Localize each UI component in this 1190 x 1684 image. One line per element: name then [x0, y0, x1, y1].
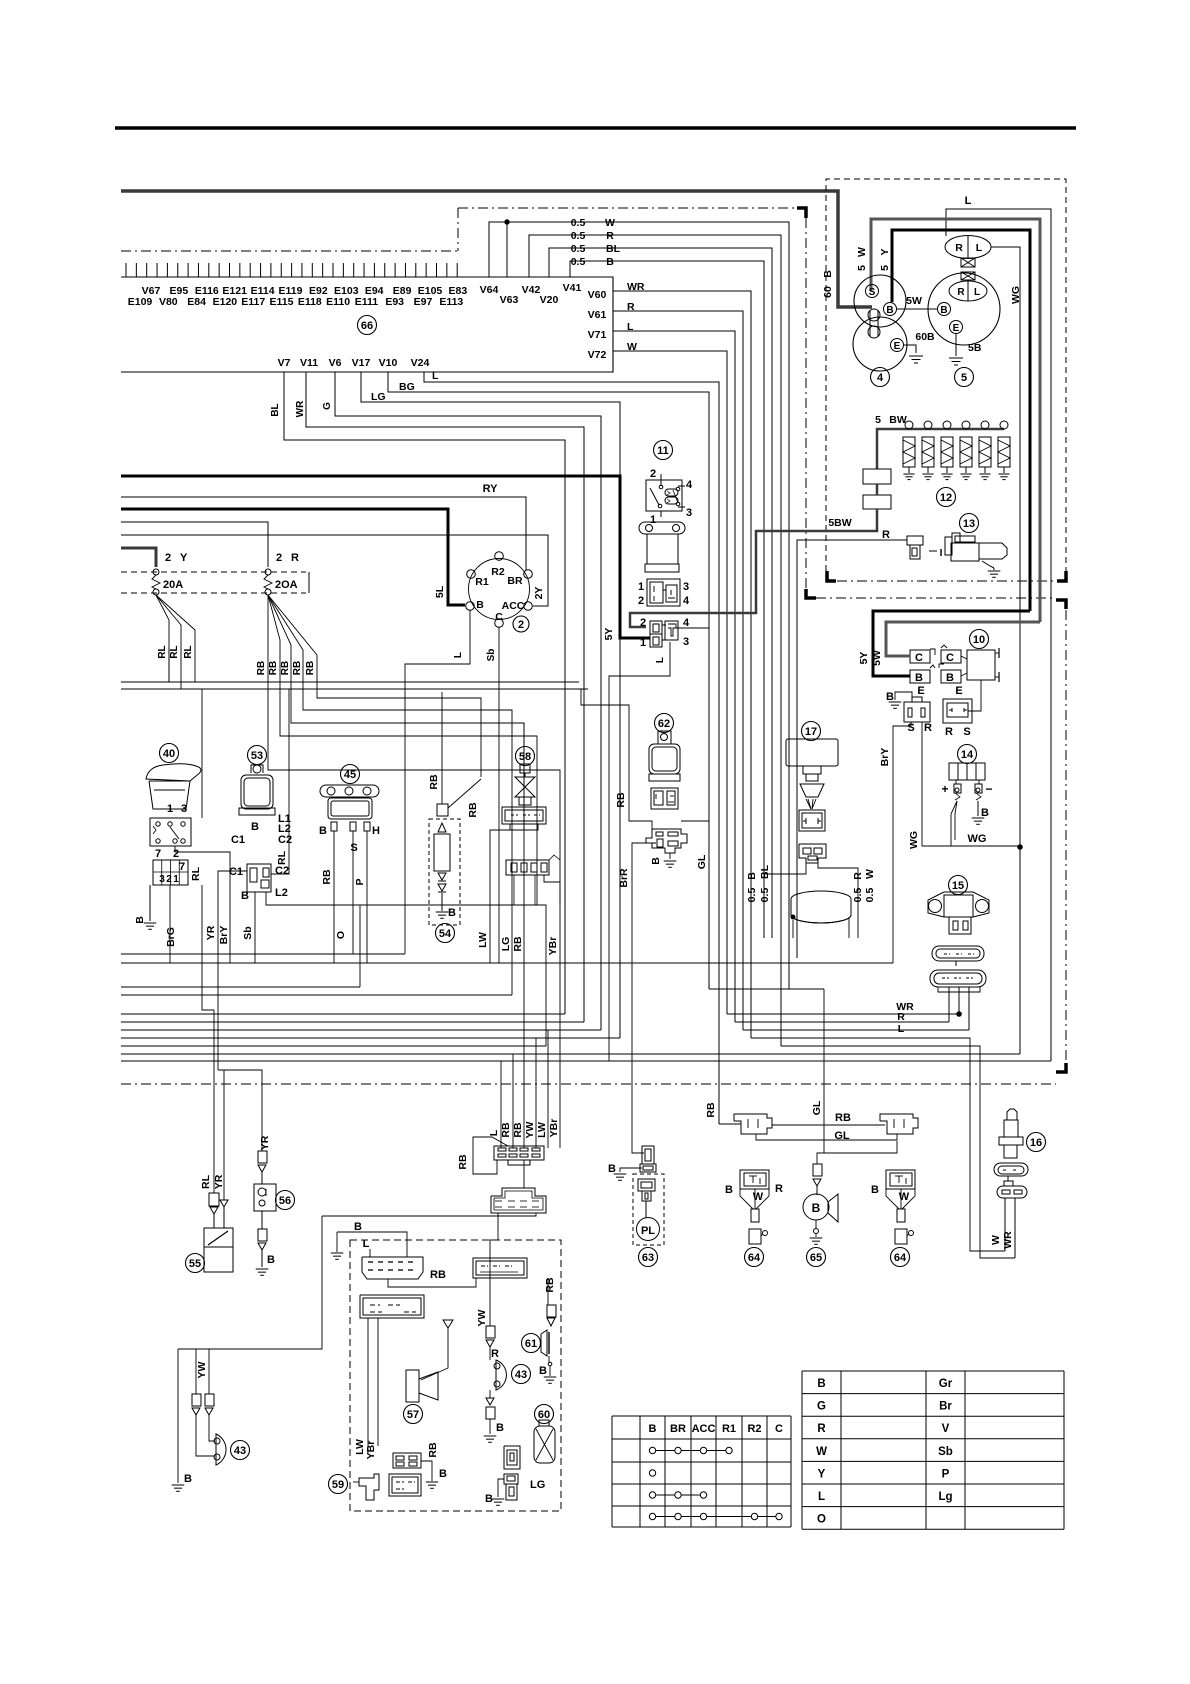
svg-text:RB: RB: [430, 1269, 446, 1281]
svg-text:B: B: [940, 305, 947, 316]
svg-text:YW: YW: [524, 1121, 536, 1138]
relay 11 pin2: [660, 474, 662, 486]
circle 43: [512, 1365, 531, 1384]
connector 11 lower pin2: [650, 621, 662, 634]
svg-text:V64: V64: [480, 284, 499, 296]
circle 10: [970, 630, 989, 649]
svg-text:B: B: [241, 890, 249, 902]
svg-text:3: 3: [181, 803, 187, 815]
pilot lamp 63 plug: [638, 1179, 655, 1191]
svg-text:L: L: [453, 652, 464, 658]
wire L from B terminal: [405, 610, 470, 954]
regulator 55 body: [204, 1247, 233, 1272]
wire WR to reg: [727, 1013, 959, 1015]
tail conn oval 2: [997, 1186, 1027, 1198]
wire B gnd stem: [336, 1232, 338, 1252]
alternator terminal E: [950, 321, 963, 334]
svg-text:E: E: [953, 323, 960, 334]
connector 53: [247, 864, 271, 892]
engine frame dash-dot top: [458, 207, 797, 209]
svg-text:5Y: 5Y: [858, 652, 870, 665]
wire BrY from S: [893, 722, 911, 963]
wires conn3 down: [367, 1318, 369, 1453]
cdi link C: [961, 656, 967, 659]
starter terminal E: [891, 339, 904, 352]
headlight 64R bulb: [886, 1170, 915, 1189]
ignition sw conn 60: [504, 1446, 520, 1469]
svg-text:ACC: ACC: [502, 600, 525, 612]
svg-text:B: B: [251, 821, 259, 833]
cdi 10 box: [967, 650, 995, 680]
tail socket oval: [994, 1163, 1028, 1176]
battery 14 body: [949, 763, 985, 780]
svg-text:45: 45: [344, 769, 356, 781]
wire GL from 62: [681, 820, 709, 822]
wire 17 basket left: [771, 878, 773, 938]
wire L2 down: [266, 892, 546, 1046]
svg-text:V61: V61: [588, 309, 607, 321]
svg-text:R: R: [924, 722, 932, 734]
connector 55a: [209, 1193, 219, 1206]
ground 59: [431, 1473, 433, 1481]
wire y1216: [322, 1213, 536, 1216]
ground 63: [614, 1173, 627, 1175]
svg-text:RB: RB: [705, 1102, 717, 1118]
svg-text:RB: RB: [427, 1442, 439, 1458]
svg-text:60: 60: [822, 286, 834, 298]
svg-text:R: R: [945, 726, 953, 738]
circle 63: [639, 1248, 658, 1267]
svg-text:V20: V20: [540, 294, 559, 306]
bottom group dashed box 59: [350, 1240, 561, 1511]
relay 53 tab: [253, 765, 261, 773]
svg-text:R: R: [897, 1011, 905, 1023]
starter E ground wire: [904, 345, 916, 353]
bus line 995: [121, 994, 512, 996]
connector 63 plug: [632, 1154, 642, 1156]
table row2 dots: [649, 1470, 655, 1476]
svg-text:L: L: [363, 1238, 370, 1250]
svg-text:GL: GL: [811, 1100, 823, 1115]
wires 17 right: [818, 863, 858, 938]
plug cap 17 cylinder: [791, 891, 851, 923]
wire WG to junction: [922, 845, 951, 847]
svg-text:13: 13: [963, 518, 975, 530]
alternator 5 body: [928, 273, 1000, 345]
switch 40 body: [150, 818, 191, 846]
ground box B: [336, 1232, 338, 1251]
wire LW from 58: [490, 830, 510, 963]
svg-text:3: 3: [159, 874, 165, 885]
svg-text:4: 4: [877, 372, 884, 384]
starter ground: [909, 355, 923, 357]
svg-text:E113: E113: [439, 296, 463, 308]
svg-text:4: 4: [683, 595, 690, 607]
relay 11 contact: [650, 488, 659, 505]
svg-text:C1: C1: [231, 834, 245, 846]
svg-text:0.5: 0.5: [571, 230, 586, 242]
svg-text:RB: RB: [615, 792, 627, 808]
bus line 1061: [121, 1060, 1051, 1062]
svg-text:L: L: [974, 287, 980, 298]
conn yw box: [486, 1326, 495, 1338]
sensor 58 stem: [520, 764, 530, 773]
svg-text:I: I: [940, 548, 943, 559]
fuse box dashed: [121, 571, 306, 573]
ignition coil 17 circle: [802, 722, 821, 741]
loop wire RB: [473, 1137, 508, 1174]
svg-text:YW: YW: [476, 1309, 488, 1326]
svg-text:B: B: [886, 691, 894, 703]
svg-text:LW: LW: [536, 1122, 548, 1138]
cdi 10 connector C1: [910, 650, 930, 663]
svg-text:65: 65: [810, 1252, 822, 1264]
spark plug ground: [988, 570, 1001, 572]
wire 5BW drop: [876, 484, 879, 495]
svg-text:7: 7: [155, 848, 161, 860]
switch 40 circle: [160, 744, 179, 763]
svg-text:RL: RL: [200, 1174, 212, 1189]
svg-text:WG: WG: [1010, 286, 1022, 304]
engine frame dash-dot riser: [457, 208, 459, 251]
wire S from 45: [352, 831, 354, 954]
svg-text:Y: Y: [180, 552, 188, 564]
svg-text:V7: V7: [278, 357, 291, 369]
regulator pins: [948, 987, 950, 1022]
svg-text:2OA: 2OA: [275, 579, 298, 591]
wire R comp13: [797, 540, 907, 958]
switch 59 connector: [389, 1474, 421, 1496]
pickup 43L: [216, 1434, 226, 1465]
wire 5W gray: [871, 219, 1040, 622]
wires 17 left: [764, 863, 806, 874]
svg-text:20A: 20A: [163, 579, 183, 591]
flasher 11 base: [645, 564, 679, 572]
circle 5: [955, 368, 974, 387]
conn yw2: [205, 1394, 214, 1406]
wire BG from V10: [388, 372, 709, 989]
svg-text:LG: LG: [530, 1479, 545, 1491]
svg-text:7: 7: [179, 861, 185, 873]
svg-text:0.5: 0.5: [759, 888, 771, 903]
cdi 10 pin marks right: [998, 648, 1000, 658]
svg-text:1: 1: [167, 803, 173, 815]
svg-text:1: 1: [638, 581, 644, 593]
svg-text:5W: 5W: [871, 650, 883, 666]
svg-text:L: L: [627, 321, 634, 333]
regulator conn oval 1: [932, 946, 984, 961]
wire RL from C2: [271, 689, 289, 874]
wire L from pin3: [609, 642, 670, 1061]
wire WR from V11: [306, 372, 584, 1022]
relay 62 tab: [658, 731, 671, 744]
svg-text:3: 3: [686, 507, 692, 519]
relay 62 base: [649, 774, 680, 781]
cdi ground wire: [895, 692, 912, 700]
regulator conn oval 2: [930, 970, 986, 987]
svg-text:E: E: [917, 685, 924, 697]
flasher 11 body: [647, 534, 678, 564]
svg-text:L2: L2: [275, 887, 288, 899]
bus line 1030: [121, 1029, 601, 1031]
headlight 64L V: [740, 1189, 753, 1209]
wire V63 riser: [506, 222, 508, 277]
svg-text:5BW: 5BW: [828, 517, 851, 529]
svg-text:E120: E120: [213, 296, 238, 308]
wires conn1-conn2: [388, 1278, 476, 1287]
wire RB conn2 right: [547, 1278, 549, 1305]
svg-text:E117: E117: [241, 296, 265, 308]
svg-text:V63: V63: [500, 294, 519, 306]
svg-text:43: 43: [515, 1369, 527, 1381]
ignition terminal C: [495, 619, 504, 628]
wire G from V6: [335, 372, 601, 1030]
engine frame dash-dot right v1: [805, 218, 807, 594]
svg-text:WR: WR: [1002, 1231, 1014, 1249]
ignition terminal B: [466, 602, 475, 611]
svg-text:R: R: [852, 872, 864, 880]
handlebar connector 2: [473, 1258, 527, 1278]
svg-text:0.5: 0.5: [571, 217, 586, 229]
svg-text:C1: C1: [229, 866, 243, 878]
svg-text:YR: YR: [213, 1174, 225, 1189]
wire 43 down: [489, 1390, 491, 1398]
fusible link box lower: [863, 495, 891, 509]
svg-text:RL: RL: [169, 645, 180, 658]
wire YR from C1: [218, 871, 247, 1070]
svg-text:E: E: [894, 341, 901, 352]
svg-text:E84: E84: [187, 296, 206, 308]
wire RL drop 55: [168, 682, 170, 689]
svg-text:40: 40: [163, 748, 175, 760]
relay 11 pin3: [676, 502, 680, 506]
wire BL from V7: [284, 372, 565, 1014]
wire L from V24: [424, 372, 719, 1124]
connector 11 lower pin1: [650, 634, 662, 647]
svg-text:0.5: 0.5: [864, 888, 876, 903]
svg-text:RB: RB: [500, 1122, 512, 1138]
ignition terminal R2: [495, 552, 504, 561]
svg-text:54: 54: [439, 928, 452, 940]
battery minus ground wire: [977, 801, 979, 816]
svg-text:B: B: [946, 672, 954, 684]
table row3 dots: [649, 1492, 655, 1498]
wire LG gnd: [498, 1479, 504, 1497]
regulator 15 tab: [949, 917, 971, 934]
svg-text:B: B: [184, 1473, 192, 1485]
wire 5Y into B1: [873, 611, 1030, 676]
ground LGb: [492, 1498, 505, 1500]
svg-text:V41: V41: [563, 282, 582, 294]
circle 12: [937, 488, 956, 507]
bus pair upper: [121, 681, 579, 683]
connector bottom tab: [508, 1160, 530, 1165]
svg-text:L: L: [965, 195, 972, 207]
bus line 1054: [121, 1053, 1020, 1055]
table row1 dots: [649, 1447, 655, 1453]
svg-text:56: 56: [279, 1195, 291, 1207]
horn 65 contact: [815, 1220, 817, 1228]
buzzer 61 contact: [548, 1356, 550, 1362]
battery plus WG wire: [951, 801, 957, 846]
connector 40: [153, 860, 188, 885]
wire YR jog: [224, 1070, 262, 1149]
connector 58: [502, 807, 546, 824]
circle 11: [654, 441, 673, 460]
regulator 15 body: [928, 892, 989, 917]
bus line 2Y-ACC: [121, 535, 548, 606]
svg-text:V: V: [942, 1423, 950, 1435]
svg-text:E97: E97: [414, 296, 433, 308]
wire RL upper: [202, 885, 214, 1010]
wire P from H45: [366, 831, 368, 963]
ignition coil 17 body: [786, 739, 838, 766]
alternator lamp R-L: [949, 281, 987, 301]
svg-text:B: B: [725, 1184, 733, 1196]
diode 54 ground: [436, 911, 449, 913]
svg-text:1: 1: [650, 514, 656, 526]
bus line 1038: [121, 1037, 620, 1039]
wire LG from V17: [361, 372, 620, 1038]
antenna wire: [443, 1320, 453, 1328]
svg-text:2: 2: [166, 874, 172, 885]
wire YW 2: [208, 1349, 210, 1394]
wire YBr: [544, 875, 560, 1022]
engine frame dash-dot bottom: [121, 1083, 1056, 1085]
wire bundle to bottom connector: [500, 1061, 502, 1148]
svg-text:S: S: [963, 726, 970, 738]
page top rule: [115, 126, 1076, 130]
ground 43: [484, 1435, 497, 1437]
svg-text:2: 2: [276, 552, 282, 564]
svg-text:R: R: [957, 287, 965, 298]
wire 5Y black: [892, 230, 1030, 611]
svg-text:BrG: BrG: [165, 927, 177, 947]
svg-text:53: 53: [251, 750, 263, 762]
diode 54 body: [434, 834, 450, 871]
diode 54 arrow: [438, 823, 446, 832]
svg-text:W: W: [899, 1191, 910, 1203]
wire YR to 56: [218, 1070, 262, 1151]
ignition terminal BR: [524, 570, 533, 579]
svg-text:E93: E93: [385, 296, 404, 308]
frame corner bracket ML: [806, 589, 816, 598]
svg-text:RB: RB: [305, 661, 316, 675]
wire BrG: [169, 885, 171, 963]
battery 14 circle: [958, 745, 977, 764]
junction V63 on 0.5W: [505, 220, 509, 224]
headlight 64R V: [886, 1189, 899, 1209]
svg-text:W: W: [864, 869, 876, 879]
svg-text:RB: RB: [268, 661, 279, 675]
svg-text:10: 10: [973, 634, 985, 646]
circle 54: [436, 924, 455, 943]
svg-text:59: 59: [332, 1479, 344, 1491]
circle 61: [522, 1334, 541, 1353]
svg-text:YBr: YBr: [365, 1441, 377, 1460]
relay 53 circle: [248, 746, 267, 765]
connector bottom 2: [491, 1188, 546, 1213]
ignition terminal ACC: [524, 602, 533, 611]
table row4 dots: [649, 1513, 655, 1519]
svg-text:Lg: Lg: [938, 1491, 952, 1503]
bus line 2R feed: [121, 522, 268, 567]
bus line 1022: [121, 1021, 584, 1023]
svg-text:L: L: [655, 657, 666, 663]
circle 64R: [891, 1248, 910, 1267]
svg-text:BL: BL: [270, 403, 281, 416]
wire B ground 62: [669, 853, 671, 859]
wire RL to 55: [201, 818, 203, 846]
svg-text:B: B: [746, 872, 758, 880]
wire L from V71: [613, 331, 735, 1022]
svg-text:5: 5: [961, 372, 967, 384]
circle 57: [404, 1405, 423, 1424]
circle 4: [871, 368, 890, 387]
alternator terminal B: [938, 303, 951, 316]
svg-text:B: B: [539, 1365, 547, 1377]
wire 55: [213, 1214, 215, 1228]
horn relay 45 top bar: [320, 785, 379, 797]
starter terminal S: [866, 285, 879, 298]
wire RB from B45: [333, 831, 335, 963]
svg-text:RB: RB: [835, 1112, 851, 1124]
wire 2Y feed thick: [121, 548, 156, 567]
plug gap mark: [929, 550, 937, 552]
frame corner bracket BR: [1056, 1063, 1066, 1072]
spark plug tip: [979, 543, 1007, 559]
svg-text:−: −: [985, 782, 992, 796]
wire W route: [751, 1038, 1005, 1251]
svg-text:16: 16: [1030, 1137, 1042, 1149]
svg-text:P: P: [354, 878, 366, 885]
svg-text:V11: V11: [300, 357, 318, 369]
svg-text:B: B: [981, 807, 989, 819]
svg-text:2: 2: [650, 468, 656, 480]
svg-text:55: 55: [189, 1258, 201, 1270]
ground 61: [549, 1366, 551, 1376]
conn yw1: [192, 1394, 201, 1406]
svg-text:V71: V71: [588, 329, 607, 341]
svg-text:V17: V17: [352, 357, 371, 369]
svg-text:Gr: Gr: [939, 1378, 953, 1390]
svg-text:B: B: [871, 1184, 879, 1196]
color code table: [802, 1370, 1064, 1372]
svg-text:V10: V10: [379, 357, 398, 369]
svg-text:W: W: [753, 1191, 764, 1203]
circle 59: [329, 1475, 348, 1494]
ground bl: [172, 1484, 185, 1486]
svg-text:YR: YR: [205, 925, 217, 940]
wires RL drop: [168, 648, 170, 682]
ground 56: [256, 1268, 269, 1270]
svg-text:V72: V72: [588, 349, 607, 361]
switch 59 key: [359, 1474, 379, 1500]
wire 43 gnd: [489, 1419, 491, 1434]
relay 62 circle: [655, 714, 674, 733]
connector bottom multi: [494, 1146, 544, 1160]
tail wires W WR: [1004, 1198, 1006, 1251]
horn 65 ground: [815, 1233, 817, 1237]
svg-text:BrR: BrR: [618, 868, 630, 888]
svg-text:S: S: [350, 842, 357, 854]
wire W from V72: [613, 351, 727, 1014]
sensor 58 bowtie: [515, 777, 535, 797]
ignition coil 17 funnel: [800, 784, 824, 797]
turn bulb R-L: [945, 236, 991, 259]
flasher 11 top bar: [639, 522, 685, 534]
wire 56 gnd: [261, 1250, 263, 1267]
